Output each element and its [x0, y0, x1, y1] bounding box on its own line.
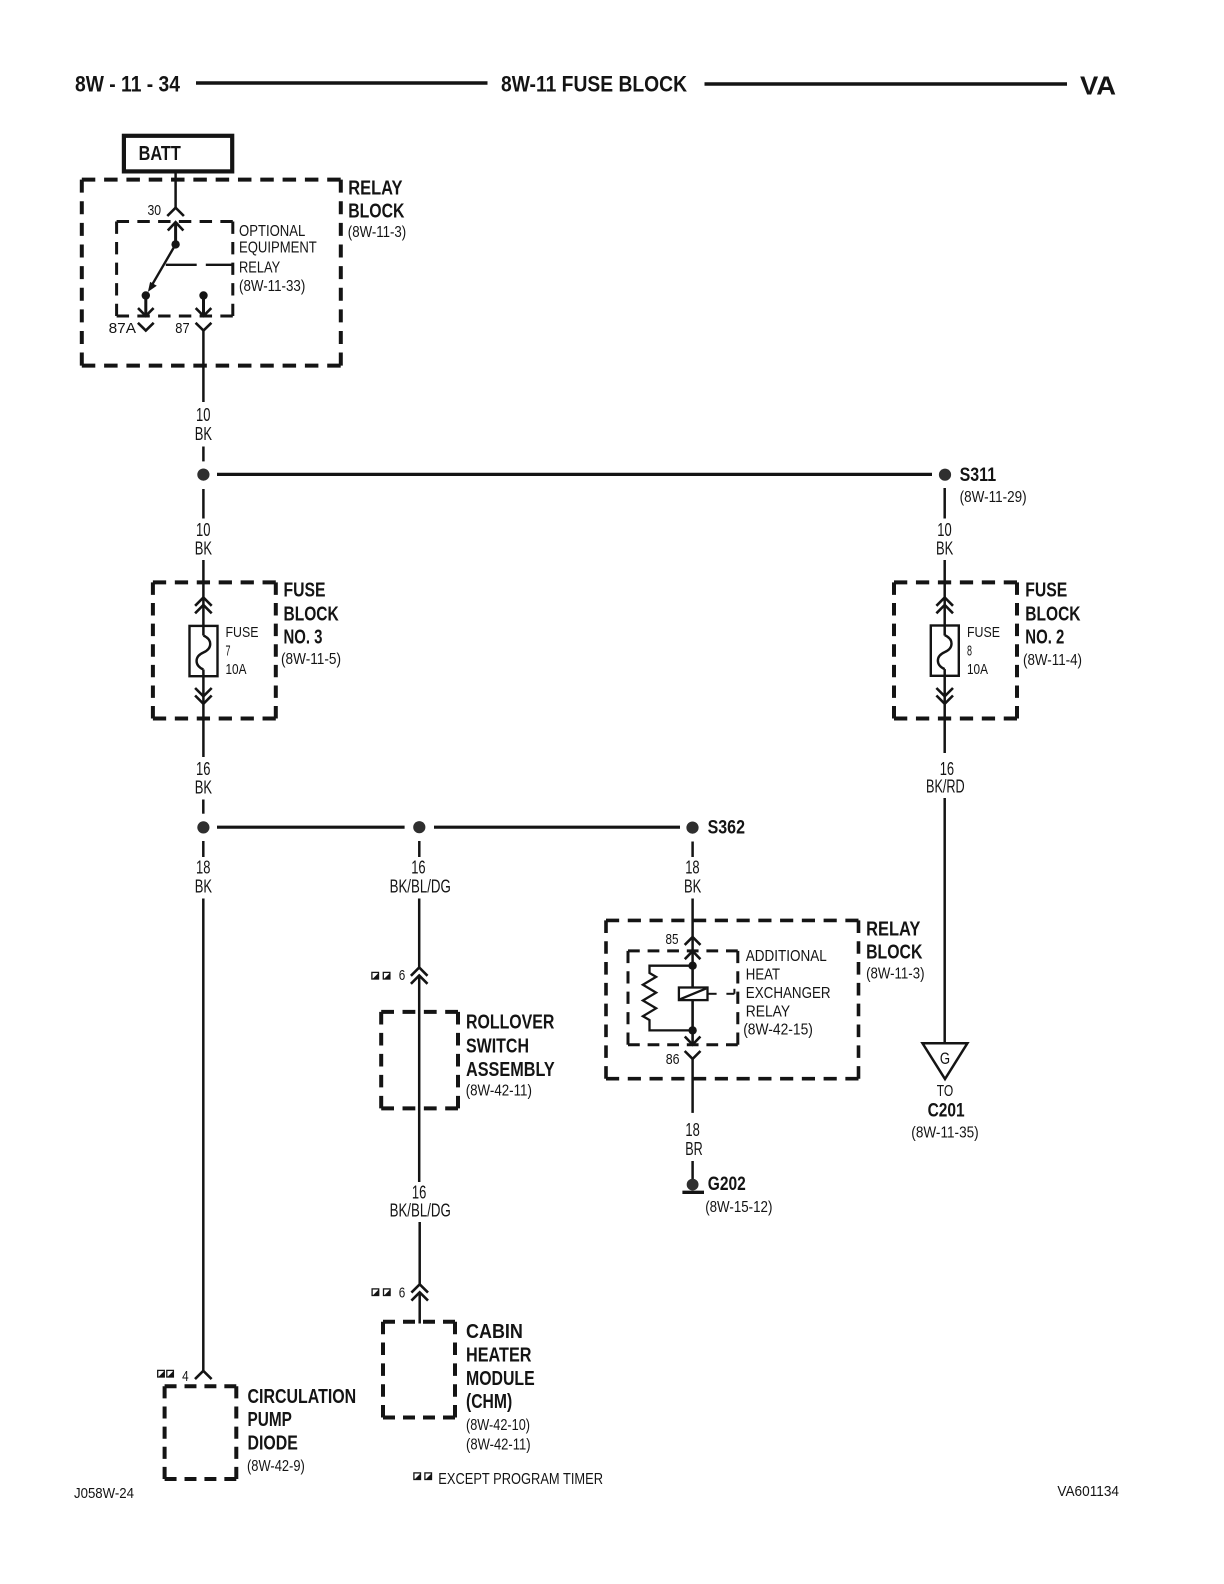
- svg-text:30: 30: [148, 202, 162, 219]
- wire gauge label 10 BK (left drop): [195, 520, 212, 559]
- wire label 16 BK/RD to connector C201: [943, 798, 946, 1043]
- svg-text:BR: BR: [685, 1139, 703, 1159]
- fuse block no.2 dashed box: [894, 582, 1017, 718]
- relay contact 87 node: [199, 291, 207, 299]
- relay coil output arrow (pin 86 side): [685, 1030, 701, 1044]
- header rule left: [196, 81, 488, 85]
- connector destination label TO C201: [911, 1083, 978, 1142]
- svg-text:FUSE: FUSE: [967, 624, 1000, 641]
- wire through rollover switch assembly: [418, 976, 421, 1183]
- svg-text:(8W-11-3): (8W-11-3): [348, 224, 406, 241]
- fuse F7 body: [190, 626, 218, 676]
- svg-text:RELAY: RELAY: [239, 260, 280, 277]
- svg-text:18: 18: [685, 1120, 699, 1140]
- svg-text:S311: S311: [960, 465, 997, 486]
- circulation pump diode pin 4 chevron: [195, 1371, 212, 1379]
- svg-text:BK: BK: [195, 539, 212, 559]
- svg-text:10: 10: [196, 520, 210, 540]
- fuse block no.3 dashed box: [153, 582, 276, 718]
- wire S311 to label 10 BK (right drop): [943, 488, 946, 519]
- resistor (coil suppression) zigzag: [643, 966, 693, 1031]
- wire through relay coil: [691, 966, 694, 1031]
- svg-text:10A: 10A: [226, 661, 247, 678]
- svg-text:BLOCK: BLOCK: [866, 942, 923, 964]
- svg-text:FUSE: FUSE: [226, 624, 259, 641]
- svg-text:6: 6: [399, 967, 406, 984]
- wire pin 86 to label 18 BR: [691, 1059, 694, 1113]
- splice S311 label: [960, 465, 1027, 506]
- wire gauge label 16 BK/RD: [926, 759, 965, 797]
- svg-text:6: 6: [399, 1285, 406, 1302]
- svg-text:TO: TO: [937, 1083, 954, 1100]
- pin 87 terminal chevron: [196, 323, 212, 331]
- fuse 7 input double chevron: [195, 598, 212, 614]
- additional heat exchanger relay label: [743, 948, 830, 1039]
- circulation pump diode label: [247, 1386, 356, 1475]
- wire S362 to label 18 BK (left branch): [202, 841, 205, 857]
- relay coil bottom node: [688, 1026, 696, 1034]
- svg-text:NO. 2: NO. 2: [1025, 627, 1064, 649]
- svg-text:CIRCULATION: CIRCULATION: [248, 1386, 357, 1408]
- svg-text:7: 7: [226, 643, 231, 660]
- svg-text:C201: C201: [928, 1101, 965, 1122]
- svg-text:16: 16: [411, 858, 425, 878]
- svg-text:BK: BK: [195, 778, 212, 798]
- pin 86 terminal chevron: [685, 1051, 701, 1059]
- svg-text:ROLLOVER: ROLLOVER: [466, 1012, 555, 1034]
- svg-text:BK: BK: [684, 877, 701, 897]
- relay switch blade (armature to 87A): [148, 244, 176, 292]
- svg-text:BATT: BATT: [139, 143, 181, 165]
- svg-text:BK: BK: [936, 539, 953, 559]
- svg-text:10A: 10A: [967, 661, 988, 678]
- fuse F8 body: [931, 626, 959, 676]
- svg-text:G202: G202: [708, 1174, 746, 1195]
- except-program-timer marks at pin 4: [158, 1370, 174, 1377]
- relay block no.1 label: [348, 178, 406, 242]
- wire gauge label 16 BK/BL/DG: [390, 858, 451, 897]
- svg-text:18: 18: [196, 858, 210, 878]
- svg-text:VA: VA: [1080, 71, 1116, 101]
- optional equipment relay label: [239, 223, 317, 295]
- relay common terminal arrow (pin 30 side): [168, 222, 184, 244]
- relay contact 87A arrow: [138, 296, 154, 316]
- legend except program timer: [414, 1471, 603, 1488]
- relay coil symbol: [679, 988, 735, 1001]
- fuse 8 output double chevron: [936, 688, 953, 704]
- svg-text:EXCEPT PROGRAM TIMER: EXCEPT PROGRAM TIMER: [438, 1471, 603, 1488]
- svg-text:(8W-11-4): (8W-11-4): [1023, 652, 1082, 669]
- wire S311 bus to label 10 BK (left drop): [202, 489, 205, 519]
- wire BATT to relay pin 30: [174, 171, 177, 207]
- svg-text:(8W-42-9): (8W-42-9): [247, 1458, 305, 1475]
- svg-text:(8W-42-11): (8W-42-11): [466, 1437, 531, 1454]
- svg-text:FUSE: FUSE: [284, 580, 326, 602]
- svg-text:G: G: [940, 1050, 950, 1068]
- svg-text:(8W-42-10): (8W-42-10): [466, 1417, 530, 1434]
- svg-text:(8W-11-33): (8W-11-33): [239, 278, 305, 295]
- off-page connector triangle G (to C201): [923, 1043, 968, 1079]
- splice node S362: [686, 822, 698, 834]
- svg-text:NO. 3: NO. 3: [284, 627, 323, 649]
- rollover switch assembly dashed box: [381, 1012, 458, 1109]
- fuse block no.2 label: [1023, 580, 1082, 669]
- svg-text:(8W-42-15): (8W-42-15): [743, 1022, 813, 1039]
- wire gauge label 18 BK (left branch): [195, 858, 212, 897]
- relay coil divider dashed line: [166, 264, 233, 266]
- svg-text:BK/RD: BK/RD: [926, 777, 965, 797]
- svg-text:FUSE: FUSE: [1025, 580, 1067, 602]
- svg-text:EQUIPMENT: EQUIPMENT: [239, 240, 317, 257]
- svg-text:ADDITIONAL: ADDITIONAL: [746, 948, 827, 965]
- relay contact 87 arrow: [196, 296, 212, 316]
- fuse 7 output double chevron: [195, 688, 212, 704]
- svg-text:(8W-11-5): (8W-11-5): [281, 651, 341, 668]
- relay coil input arrow (pin 85 side): [685, 951, 701, 959]
- svg-text:(8W-15-12): (8W-15-12): [705, 1199, 772, 1216]
- svg-text:18: 18: [685, 858, 699, 878]
- cabin heater module dashed box: [383, 1322, 455, 1418]
- svg-text:(CHM): (CHM): [466, 1391, 512, 1413]
- svg-text:8: 8: [967, 643, 972, 660]
- additional heat exchanger relay dashed box: [628, 951, 738, 1045]
- wire gauge label 18 BK (right branch): [684, 858, 701, 897]
- svg-text:BK/BL/DG: BK/BL/DG: [390, 1201, 451, 1221]
- svg-text:RELAY: RELAY: [866, 919, 921, 941]
- svg-text:OPTIONAL: OPTIONAL: [239, 223, 305, 240]
- svg-text:HEATER: HEATER: [466, 1345, 532, 1367]
- rollover switch assembly label: [466, 1012, 556, 1100]
- svg-text:86: 86: [666, 1051, 680, 1068]
- relay common contact node: [171, 240, 179, 248]
- junction node left on S362 bus: [197, 821, 209, 833]
- wire gauge label 16 BK/BL/DG (second): [390, 1183, 451, 1221]
- relay coil top node: [688, 962, 696, 970]
- svg-text:BLOCK: BLOCK: [348, 201, 405, 223]
- svg-text:8W-11 FUSE BLOCK: 8W-11 FUSE BLOCK: [501, 72, 687, 97]
- junction node left of S311 bus: [197, 469, 209, 481]
- svg-text:BLOCK: BLOCK: [1025, 604, 1081, 626]
- wire label 18 BR to ground G202: [691, 1161, 694, 1180]
- svg-text:8W - 11 - 34: 8W - 11 - 34: [75, 72, 181, 97]
- svg-text:MODULE: MODULE: [466, 1368, 535, 1390]
- svg-text:16: 16: [412, 1183, 426, 1203]
- svg-text:BK/BL/DG: BK/BL/DG: [390, 877, 451, 897]
- wire fuse 7 to label 16 BK: [202, 670, 205, 758]
- relay block no.2 label: [866, 919, 924, 983]
- wire 18 BK to circulation pump diode: [202, 899, 205, 1371]
- wire label 16 BK to splice S362: [202, 800, 205, 814]
- fuse F8 value label: [967, 624, 1000, 678]
- svg-text:CABIN: CABIN: [466, 1321, 523, 1343]
- svg-text:SWITCH: SWITCH: [466, 1036, 529, 1058]
- wire S362 to label 16 BK/BL/DG: [418, 841, 421, 857]
- wire gauge label 16 BK: [195, 759, 212, 798]
- except-program-timer marks at rollover pin 6: [372, 972, 390, 979]
- ground G202 label: [705, 1174, 772, 1216]
- svg-text:J058W-24: J058W-24: [74, 1485, 134, 1502]
- svg-text:PUMP: PUMP: [248, 1409, 292, 1431]
- cabin heater module label: [466, 1321, 535, 1454]
- svg-text:4: 4: [182, 1368, 189, 1385]
- fuse block no.3 label: [281, 580, 341, 668]
- svg-text:RELAY: RELAY: [348, 178, 403, 200]
- svg-text:85: 85: [666, 931, 679, 948]
- wire S362 to label 18 BK (right branch): [691, 842, 694, 858]
- wire label to fuse 7 element: [202, 560, 205, 636]
- circulation pump diode dashed box: [165, 1386, 237, 1479]
- wire pin 87 to label 10 BK: [202, 331, 205, 402]
- relay contact 87A node: [142, 291, 150, 299]
- svg-text:HEAT: HEAT: [746, 967, 780, 984]
- pin 87A terminal chevron: [138, 323, 154, 331]
- ground splice node G202: [682, 1179, 704, 1193]
- svg-text:10: 10: [937, 520, 951, 540]
- wire gauge label 10 BK (above S311): [195, 405, 212, 444]
- svg-text:(8W-42-11): (8W-42-11): [466, 1083, 532, 1100]
- svg-text:DIODE: DIODE: [248, 1433, 298, 1455]
- wire fuse 8 to label 16 BK/RD: [943, 669, 946, 753]
- relay block no.1 dashed box: [82, 180, 341, 366]
- svg-text:87: 87: [175, 320, 189, 337]
- cabin heater module pin 6 double chevron: [411, 1284, 428, 1300]
- wire pin 6 into cabin heater module: [418, 1292, 421, 1323]
- wire 16 BK/BL/DG to cabin heater module: [418, 1222, 421, 1284]
- pin 30 terminal chevron: [167, 208, 184, 216]
- battery feed BATT box: [124, 136, 232, 172]
- svg-text:ASSEMBLY: ASSEMBLY: [466, 1059, 555, 1081]
- wire 18 BK to relay pin 85: [691, 899, 694, 966]
- except-program-timer marks at CHM pin 6: [372, 1289, 390, 1296]
- splice node S311: [939, 469, 951, 481]
- svg-text:BK: BK: [195, 877, 212, 897]
- fuse 8 input double chevron: [936, 598, 953, 614]
- svg-text:10: 10: [196, 405, 210, 425]
- wire label to fuse 8 element: [943, 560, 946, 636]
- wire label 10 BK to splice node: [202, 447, 205, 462]
- wire gauge label 10 BK (right drop): [936, 520, 953, 559]
- junction node middle on S362 bus: [413, 821, 425, 833]
- svg-text:VA601134: VA601134: [1057, 1483, 1119, 1500]
- header rule right: [705, 82, 1068, 86]
- relay block no.2 dashed box: [606, 920, 859, 1078]
- svg-text:EXCHANGER: EXCHANGER: [746, 985, 831, 1002]
- svg-text:S362: S362: [708, 818, 745, 839]
- svg-text:RELAY: RELAY: [746, 1004, 791, 1021]
- optional equipment relay dashed box: [117, 222, 233, 317]
- pin 85 terminal chevron: [685, 937, 701, 945]
- fuse F7 value label: [226, 624, 259, 678]
- svg-text:BK: BK: [195, 424, 212, 444]
- svg-text:(8W-11-29): (8W-11-29): [960, 489, 1027, 506]
- splice S311 bus wire: [217, 473, 932, 476]
- rollover switch pin 6 double chevron: [411, 968, 428, 984]
- svg-text:BLOCK: BLOCK: [284, 604, 340, 626]
- svg-text:16: 16: [196, 759, 210, 779]
- splice S362 bus wire: [217, 826, 680, 829]
- wire gauge label 18 BR: [685, 1120, 703, 1159]
- svg-text:(8W-11-35): (8W-11-35): [911, 1125, 978, 1142]
- svg-text:87A: 87A: [109, 320, 136, 337]
- wire 16 BK/BL/DG to rollover switch: [418, 899, 421, 968]
- svg-text:(8W-11-3): (8W-11-3): [866, 966, 924, 983]
